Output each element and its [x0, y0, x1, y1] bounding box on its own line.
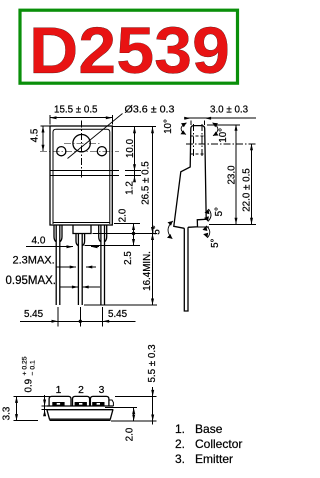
logo box	[20, 10, 238, 83]
small hole left	[57, 147, 66, 156]
vertical center line	[81, 121, 83, 179]
center pedestal	[73, 225, 91, 234]
svg-text:5.45: 5.45	[108, 309, 128, 320]
svg-text:1: 1	[56, 385, 62, 396]
lead mark 3	[92, 402, 104, 406]
horizontal center line	[40, 150, 119, 152]
groove line 2	[50, 175, 119, 177]
lead mark 1	[52, 402, 64, 406]
svg-text:2.0: 2.0	[124, 427, 135, 441]
svg-text:4.0: 4.0	[32, 236, 46, 247]
lead mark 2	[75, 402, 87, 406]
svg-text:3. Emitter: 3. Emitter	[175, 452, 233, 466]
big hole horizontal center line	[64, 142, 100, 144]
bottom inner line	[53, 222, 110, 224]
side profile	[174, 126, 206, 229]
groove line 1	[50, 170, 119, 172]
svg-text:2.5: 2.5	[123, 251, 134, 265]
bottom view plate band	[47, 405, 114, 407]
side lead	[184, 227, 188, 311]
hidden hole lines	[192, 124, 194, 157]
svg-text:3: 3	[99, 385, 105, 396]
svg-text:3.0 ± 0.3: 3.0 ± 0.3	[210, 105, 249, 116]
svg-text:22.0 ± 0.5: 22.0 ± 0.5	[241, 168, 252, 212]
extension line top right	[112, 126, 156, 128]
svg-text:4.5: 4.5	[29, 128, 40, 142]
hole center line horizontal	[186, 143, 257, 145]
bump 2	[73, 396, 90, 406]
svg-text:2.0: 2.0	[118, 208, 129, 222]
svg-text:5.5 ± 0.3: 5.5 ± 0.3	[147, 344, 158, 383]
svg-text:1. Base: 1. Base	[175, 422, 223, 436]
svg-text:D2539: D2539	[29, 13, 230, 87]
svg-text:0.9: 0.9	[24, 379, 35, 393]
front body inner chamfer line	[53, 129, 110, 224]
svg-text:16.4MIN.: 16.4MIN.	[142, 251, 153, 291]
svg-text:5.45: 5.45	[24, 309, 44, 320]
dim 0.9 +0.25 -0.1	[22, 356, 37, 392]
top edge right of bump3	[109, 400, 114, 406]
svg-text:15.5 ± 0.5: 15.5 ± 0.5	[54, 105, 98, 116]
svg-text:3.3: 3.3	[2, 406, 13, 420]
svg-text:2.3MAX.: 2.3MAX.	[13, 255, 55, 267]
small hole right	[97, 147, 106, 156]
bump 3	[90, 396, 109, 406]
extension 233.5	[93, 233, 158, 235]
svg-text:1.2: 1.2	[125, 181, 136, 195]
svg-text:26.5 ± 0.5: 26.5 ± 0.5	[141, 161, 152, 205]
svg-text:10°: 10°	[218, 128, 229, 143]
lead 2 (middle)	[76, 234, 85, 306]
bump 1	[49, 396, 71, 406]
svg-text:0.95MAX.: 0.95MAX.	[6, 275, 57, 287]
mounting hole	[73, 135, 90, 152]
svg-text:Ø3.6 ± 0.3: Ø3.6 ± 0.3	[125, 105, 176, 116]
bottom view body	[47, 410, 113, 420]
svg-text:5°: 5°	[210, 238, 221, 247]
svg-text:− 0.1: − 0.1	[30, 360, 37, 376]
svg-text:5°: 5°	[214, 207, 225, 216]
svg-text:2. Collector: 2. Collector	[175, 437, 242, 451]
svg-text:+ 0.25: + 0.25	[22, 356, 29, 375]
lead 1	[54, 225, 62, 305]
svg-text:2: 2	[78, 385, 84, 396]
lead 3	[99, 225, 107, 305]
svg-text:10°: 10°	[163, 119, 174, 134]
front body outline	[50, 126, 112, 225]
svg-text:5°: 5°	[152, 225, 163, 234]
